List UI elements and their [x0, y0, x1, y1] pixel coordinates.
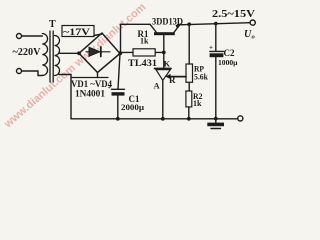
svg-text:C2: C2 [224, 48, 235, 58]
svg-text:5.6k: 5.6k [194, 73, 209, 82]
svg-text:~220V: ~220V [13, 46, 41, 58]
svg-text:2.5~15V: 2.5~15V [212, 9, 255, 20]
svg-text:R: R [169, 75, 176, 85]
svg-text:1000µ: 1000µ [218, 58, 238, 67]
svg-text:+: + [108, 85, 112, 91]
svg-text:~17V: ~17V [63, 28, 90, 38]
svg-text:A: A [154, 81, 161, 91]
svg-text:T: T [49, 19, 56, 30]
svg-text:1k: 1k [193, 99, 202, 108]
svg-text:+: + [209, 44, 213, 52]
svg-text:1N4001: 1N4001 [75, 90, 105, 100]
svg-text:K: K [164, 59, 171, 68]
svg-text:TL431: TL431 [128, 59, 157, 69]
svg-text:2000µ: 2000µ [121, 102, 144, 112]
svg-text:VD1 ~VD4: VD1 ~VD4 [71, 80, 112, 90]
svg-text:3DD13D: 3DD13D [152, 16, 183, 26]
svg-text:1k: 1k [140, 37, 149, 46]
